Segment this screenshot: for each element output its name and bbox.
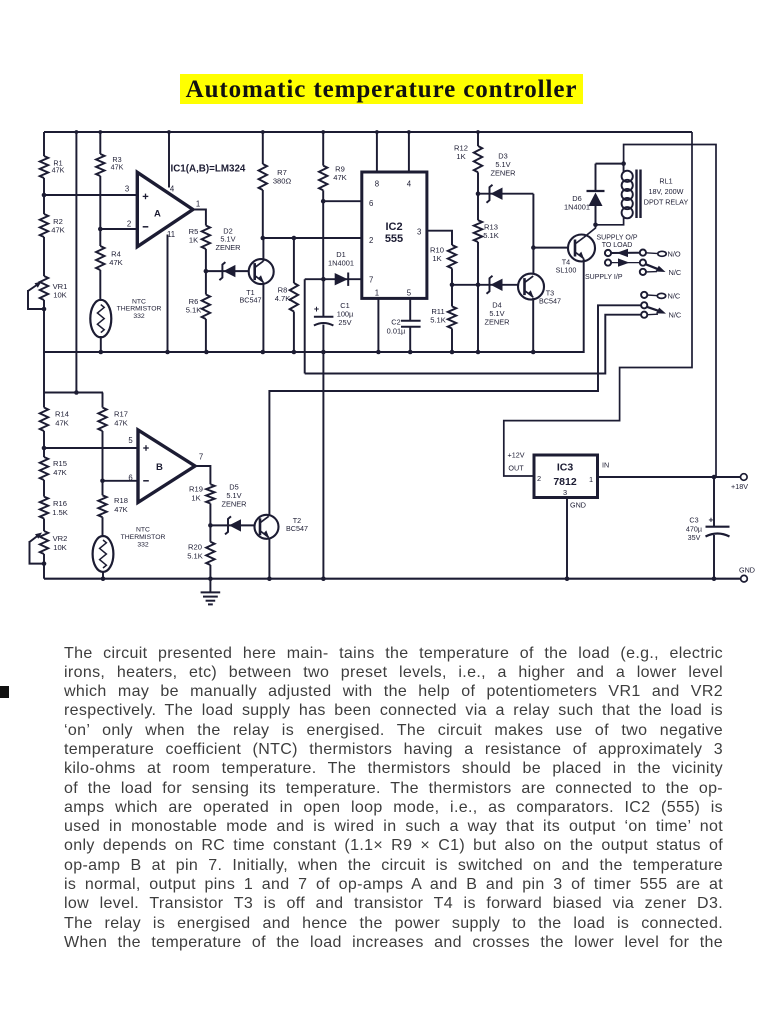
wire node to IC2 pin2 — [263, 237, 362, 239]
svg-text:R14: R14 — [55, 410, 69, 419]
edge artifact — [0, 686, 9, 698]
junction R10/R11/D4 node — [450, 283, 455, 288]
zener D3 — [487, 185, 503, 203]
wire node B to op-amp pin2 — [100, 228, 137, 230]
zener D4 — [487, 276, 503, 294]
pin 2 label — [127, 220, 131, 229]
wire R6 to mid bus — [205, 319, 207, 353]
svg-text:SUPPLY I/P: SUPPLY I/P — [585, 274, 623, 281]
pin 1 label — [196, 200, 200, 209]
terminal +18V — [741, 474, 748, 481]
resistor R6 — [202, 295, 210, 320]
IC2 pin 4 label — [407, 180, 412, 189]
wire N/C lower-bottom to D1 leg — [305, 315, 641, 374]
junction R13 rail at mid bus — [476, 350, 481, 355]
contact pole P2 circle — [605, 260, 611, 266]
svg-text:SL100: SL100 — [556, 266, 577, 275]
IC2 pin 3 label — [417, 228, 421, 237]
svg-text:+12V: +12V — [508, 451, 525, 460]
label IN — [602, 461, 609, 470]
svg-text:RL1: RL1 — [659, 177, 672, 186]
IC3 pin 3 label — [563, 488, 567, 497]
svg-text:1: 1 — [375, 289, 379, 298]
wire D6 top lead — [595, 207, 597, 225]
resistor R4 — [96, 246, 104, 270]
transistor T4 — [568, 235, 595, 262]
svg-text:IC3: IC3 — [557, 462, 574, 474]
label N/C lower-bottom — [669, 311, 682, 320]
diode D1 — [335, 273, 349, 286]
wire R3-R4 — [99, 176, 101, 246]
resistor R14 — [40, 408, 48, 432]
wire T4 emitter to mid bus — [533, 259, 584, 353]
svg-text:THERMISTOR: THERMISTOR — [117, 306, 162, 313]
wire T2 emitter to ground bus — [268, 538, 270, 579]
pin 11 label — [167, 230, 175, 239]
label R11 — [430, 307, 446, 325]
svg-text:ZENER: ZENER — [490, 169, 515, 178]
junction on top bus at IC2 pin4 — [407, 130, 411, 134]
resistor R18 — [98, 495, 106, 517]
wire R18 to thermistor B — [102, 517, 104, 537]
svg-text:IC1(A,B)=LM324: IC1(A,B)=LM324 — [171, 164, 246, 175]
label NTC thermistor A — [117, 299, 162, 320]
wire R20 to ground bus — [209, 565, 211, 579]
junction C1 rail at ground bus — [321, 576, 326, 581]
wire IC2 pin1 to mid bus — [377, 298, 379, 352]
svg-text:18V, 200W: 18V, 200W — [649, 187, 684, 196]
pin 7 label — [199, 453, 203, 462]
junction IC2 pin1 at mid bus — [376, 350, 381, 355]
junction R19/R20/D5 — [208, 523, 213, 528]
junction on top bus at R9 top — [321, 130, 325, 134]
contact pole lower circle — [641, 302, 647, 308]
label C3 — [686, 516, 702, 543]
wire C1 rail mid bus to ground bus — [322, 352, 324, 579]
op-amp U1B — [138, 430, 195, 502]
label D4 — [484, 301, 509, 327]
label R6 — [186, 297, 202, 315]
label IC1(A,B)=LM324 — [171, 164, 246, 175]
wire VR2 to ground bus — [43, 554, 45, 579]
svg-text:IN: IN — [602, 461, 609, 470]
svg-text:1K: 1K — [456, 152, 465, 161]
svg-text:35V: 35V — [688, 533, 701, 542]
junction C1 at mid bus — [321, 350, 326, 355]
wire node A to op-amp pin3 — [44, 194, 137, 196]
svg-text:2: 2 — [537, 474, 541, 483]
contact arrow right (supply) — [611, 258, 640, 266]
IC2 pin 8 label — [375, 180, 379, 189]
wire T3 emitter to mid bus — [532, 298, 534, 353]
svg-text:SUPPLY O/P: SUPPLY O/P — [597, 235, 638, 242]
svg-text:25V: 25V — [338, 318, 351, 327]
svg-text:ZENER: ZENER — [215, 243, 240, 252]
thermistor NTC B — [93, 536, 114, 572]
resistor R19 — [206, 484, 214, 503]
svg-text:R20: R20 — [188, 543, 202, 552]
ground symbol — [201, 579, 221, 605]
svg-text:47K: 47K — [53, 468, 67, 477]
junction R8 top — [292, 236, 297, 241]
label D1 — [328, 250, 354, 267]
wire R13 to D4 wire — [477, 242, 479, 285]
zener D2 — [219, 262, 235, 280]
wire pin6 node to IC2 pin6 — [323, 200, 362, 202]
contact pole P1 circle — [605, 250, 611, 256]
svg-text:THERMISTOR: THERMISTOR — [121, 534, 166, 541]
label R7 — [273, 168, 292, 186]
resistor R17 — [98, 408, 106, 432]
wire R8 to mid bus — [293, 312, 295, 353]
svg-text:5.1K: 5.1K — [483, 231, 499, 240]
label N/C lower-top — [668, 292, 681, 301]
label SUPPLY OP TO LOAD — [597, 235, 638, 249]
resistor R2 — [40, 214, 48, 237]
svg-text:1: 1 — [589, 475, 593, 484]
contact arrow left (supply) — [611, 249, 640, 257]
label R16 — [52, 499, 68, 517]
junction D6/coil bottom/T4 collector — [593, 223, 598, 228]
label RL1 — [644, 177, 689, 207]
wire coil bottom — [596, 217, 624, 225]
wire R14/R17 top bar — [44, 392, 103, 394]
svg-text:5.1K: 5.1K — [430, 316, 446, 325]
label R18 — [114, 496, 128, 514]
IC2 pin 6 label — [369, 199, 373, 208]
label R14 — [55, 410, 69, 428]
label R15 — [53, 459, 67, 477]
wire mid bus — [44, 351, 533, 353]
wire R16-VR2 — [43, 519, 45, 532]
wire R7 bottom to node — [262, 190, 264, 238]
junction C2 at mid bus — [408, 350, 413, 355]
svg-text:GND: GND — [570, 501, 586, 510]
resistor R12 — [474, 146, 482, 172]
contact circle N/C lower-top — [641, 292, 647, 298]
svg-text:47K: 47K — [109, 258, 123, 267]
svg-text:1K: 1K — [432, 254, 441, 263]
svg-text:R16: R16 — [53, 499, 67, 508]
pin 4 label — [170, 185, 175, 194]
potentiometer VR2 — [40, 531, 48, 554]
wire IC3 IN to +18V — [598, 476, 741, 478]
svg-text:R18: R18 — [114, 496, 128, 505]
thermistor NTC A — [90, 300, 111, 338]
svg-text:7812: 7812 — [553, 476, 577, 488]
junction R7/T1/pin2 wire — [261, 236, 266, 241]
resistor R11 — [448, 306, 456, 328]
resistor R9 — [319, 166, 327, 191]
svg-text:C3: C3 — [689, 516, 698, 525]
svg-text:1.5K: 1.5K — [52, 508, 68, 517]
label D2 — [215, 227, 240, 252]
svg-text:47K: 47K — [111, 163, 124, 172]
pin 5 label — [128, 436, 133, 445]
contact throw circle N/O row — [640, 250, 646, 256]
junction T3 emitter at mid bus — [531, 350, 536, 355]
wire left rail R1-R2 — [43, 178, 45, 214]
wire D5 node to T2 base — [210, 524, 254, 526]
resistor R16 — [40, 497, 48, 519]
svg-text:BC547: BC547 — [539, 296, 561, 305]
contact circle N/C lower-bottom — [641, 312, 658, 318]
IC2 pin 2 label — [369, 236, 373, 245]
resistor R3 — [96, 154, 104, 176]
wire D3 node right — [478, 193, 533, 195]
wire R14 to node — [43, 431, 45, 457]
label R13 — [483, 223, 499, 241]
junction VR2 wiper — [42, 561, 47, 566]
svg-text:0.01µ: 0.01µ — [387, 326, 406, 335]
wire R11 to mid bus — [451, 329, 453, 353]
svg-text:4: 4 — [170, 185, 175, 194]
junction on top bus at IC2 pin8 — [375, 130, 379, 134]
resistor R1 — [40, 156, 48, 178]
label GND pin3 — [570, 501, 586, 510]
svg-text:3: 3 — [125, 185, 129, 194]
svg-text:3: 3 — [417, 228, 421, 237]
junction coil top — [621, 161, 626, 166]
VR2 wiper arrow — [30, 533, 43, 543]
svg-text:N/C: N/C — [669, 311, 682, 320]
svg-text:47K: 47K — [55, 418, 69, 427]
wire ground bus — [44, 578, 741, 580]
junction on top bus at rail to R14/R17 — [75, 130, 79, 134]
junction VR1 wiper — [42, 307, 47, 312]
junction pin6 node B — [100, 479, 105, 484]
label VR1 — [53, 282, 68, 300]
label T1 — [240, 288, 262, 305]
wire D6 top to coil top — [596, 163, 624, 165]
diode D6 — [587, 164, 605, 225]
transistor T3 — [518, 274, 544, 300]
svg-text:3: 3 — [563, 488, 567, 497]
label D3 — [490, 152, 515, 178]
wire VR1 wiper to bottom terminal — [28, 290, 44, 309]
wire C3 top lead — [713, 477, 715, 527]
wire R12 top lead — [477, 132, 479, 146]
svg-text:1N4001: 1N4001 — [328, 258, 354, 267]
label +18V — [731, 482, 748, 491]
contact movable arm upper — [646, 264, 666, 272]
svg-text:332: 332 — [133, 313, 145, 320]
label R8 — [275, 286, 291, 304]
wire R17 to pin6 node — [102, 431, 104, 495]
label R10 — [430, 246, 444, 264]
label D6 — [564, 194, 590, 212]
label R1 — [52, 159, 65, 175]
junction pin7/C1 node — [321, 277, 326, 282]
label R9 — [333, 165, 347, 183]
wire C2 to mid bus — [409, 327, 411, 353]
svg-text:8: 8 — [375, 180, 379, 189]
junction node B (R3/R4) — [98, 227, 103, 232]
wire left rail VR1 to +12V mid bus — [43, 300, 45, 353]
junction R11 at mid bus — [450, 350, 455, 355]
wire left rail top — [43, 132, 45, 156]
IC2 pin 5 label — [407, 289, 412, 298]
svg-text:6: 6 — [128, 474, 132, 483]
contact throw circle B2 — [640, 260, 646, 266]
wire op-amp A output — [193, 210, 206, 226]
potentiometer VR1 — [40, 276, 48, 300]
label +12V OUT — [508, 451, 525, 473]
junction thermistor B at ground bus — [101, 576, 106, 581]
IC3 pin 1 label — [589, 475, 593, 484]
svg-text:1: 1 — [196, 200, 200, 209]
wire rail to lower op-amp resistors — [75, 132, 77, 393]
wire D5 node to R20 — [209, 525, 211, 541]
wire T4 collector — [584, 225, 596, 238]
svg-text:NTC: NTC — [132, 299, 146, 306]
wire pole lower to T2 collector — [269, 305, 641, 515]
svg-text:2: 2 — [127, 220, 131, 229]
label NTC thermistor B — [121, 527, 166, 549]
svg-text:BC547: BC547 — [286, 524, 308, 533]
capacitor C2 — [401, 321, 421, 327]
wire +12V top bus — [44, 131, 692, 133]
svg-text:47K: 47K — [51, 226, 65, 235]
label R20 — [187, 543, 203, 561]
wire D2 node to T1 base — [206, 270, 249, 272]
svg-text:A: A — [154, 209, 161, 220]
wire D1 left leg down — [304, 279, 306, 373]
wire C1 bottom to mid bus — [322, 325, 324, 353]
wire T4 base — [533, 247, 568, 249]
wire R9 node down to pin7 node — [322, 201, 324, 279]
svg-text:ZENER: ZENER — [484, 317, 509, 326]
contact N/O stub — [646, 251, 666, 256]
svg-text:OUT: OUT — [508, 464, 524, 473]
wire pin7 to D1 — [305, 278, 362, 280]
junction C3 top — [712, 475, 717, 480]
junction R6 at mid bus — [204, 350, 209, 355]
wire R12 to D3 node — [477, 172, 479, 193]
svg-text:VR2: VR2 — [53, 534, 68, 543]
wire D3 to T3 collector — [532, 194, 534, 275]
pin 6 label — [128, 474, 132, 483]
wire IC2 pin8 to bus — [376, 132, 378, 172]
resistor R5 — [202, 226, 210, 250]
capacitor C3 — [706, 515, 730, 537]
wire IC2 pin3 to R10 — [427, 231, 452, 245]
svg-text:1K: 1K — [189, 236, 198, 245]
label GND terminal — [739, 566, 755, 575]
svg-text:R15: R15 — [53, 459, 67, 468]
wire left rail R2-VR1 — [43, 237, 45, 276]
svg-text:470µ: 470µ — [686, 524, 702, 533]
svg-text:5.1K: 5.1K — [187, 551, 203, 560]
wire op-amp A pin4 to bus — [168, 132, 170, 188]
svg-text:TO LOAD: TO LOAD — [602, 242, 633, 249]
junction R20 at ground bus — [208, 576, 213, 581]
junction pin5 node — [42, 446, 47, 451]
wire D4 node to T3 base — [452, 284, 518, 286]
junction R5/R6/D2 — [204, 269, 209, 274]
label C1 — [337, 301, 354, 327]
svg-text:N/C: N/C — [669, 268, 682, 277]
resistor R8 — [290, 283, 298, 312]
junction T4 base tap — [531, 245, 536, 250]
wire IC2 pin4 to bus — [408, 132, 410, 172]
junction rail at R14/R17 bar — [74, 390, 79, 395]
svg-text:+18V: +18V — [731, 482, 748, 491]
svg-text:1K: 1K — [191, 493, 200, 502]
wire R19 to D5 node — [209, 504, 211, 526]
wire R7 top lead — [262, 132, 264, 164]
junction T1 emitter at mid bus — [261, 350, 266, 355]
label R2 — [51, 217, 65, 235]
junction pin6 node — [321, 199, 326, 204]
label T3 — [539, 289, 561, 306]
zener D5 — [225, 516, 241, 534]
svg-text:+: + — [314, 304, 319, 314]
svg-text:NTC: NTC — [136, 527, 150, 534]
svg-text:R17: R17 — [114, 410, 128, 419]
svg-text:10K: 10K — [53, 291, 67, 300]
svg-text:5: 5 — [128, 436, 133, 445]
op-amp U1A — [137, 172, 193, 246]
relay RL1 coil — [622, 164, 642, 219]
label T2 — [286, 516, 308, 533]
svg-text:47K: 47K — [114, 505, 128, 514]
label N/C upper — [669, 268, 682, 277]
junction pin11 at mid bus — [165, 350, 170, 355]
wire right rail to IC3 OUT — [504, 132, 692, 476]
label VR2 — [53, 534, 68, 552]
resistor R13 — [474, 220, 482, 242]
junction T2 emitter at ground bus — [267, 576, 272, 581]
VR1 wiper arrow — [28, 282, 42, 292]
label R17 — [114, 410, 128, 428]
junction thermistor A at mid bus — [99, 350, 104, 355]
label N/O — [668, 250, 681, 259]
IC2 pin 7 label — [369, 276, 373, 285]
wire D2 node to R6 — [205, 271, 207, 294]
wire T1 collector — [262, 238, 264, 261]
contact throw circle N/C upper — [640, 269, 657, 275]
svg-text:C2: C2 — [391, 318, 400, 327]
junction on top bus at R7 top — [261, 130, 265, 134]
svg-text:DPDT RELAY: DPDT RELAY — [644, 198, 689, 207]
svg-text:GND: GND — [739, 566, 755, 575]
svg-text:6: 6 — [369, 199, 373, 208]
svg-text:1N4001: 1N4001 — [564, 203, 590, 212]
svg-text:N/O: N/O — [668, 250, 681, 259]
resistor R10 — [448, 245, 456, 268]
svg-text:555: 555 — [385, 233, 403, 245]
junction R12/D3/R13 — [476, 191, 481, 196]
svg-text:ZENER: ZENER — [221, 499, 246, 508]
wire R17 top lead — [102, 393, 104, 408]
wire thermistor B to ground bus — [102, 571, 104, 579]
resistor R15 — [40, 457, 48, 480]
node A junction (R1/R2) — [42, 193, 47, 198]
junction on top bus at R12 top — [476, 130, 480, 134]
svg-text:5.1K: 5.1K — [186, 306, 202, 315]
svg-text:N/C: N/C — [668, 292, 681, 301]
label R3 — [111, 155, 124, 172]
label SUPPLY I/P — [585, 274, 623, 281]
label R19 — [189, 485, 203, 503]
wire left rail mid bus to bar — [43, 352, 45, 393]
label R12 — [454, 144, 468, 162]
svg-text:47K: 47K — [114, 418, 128, 427]
svg-text:4: 4 — [407, 180, 412, 189]
resistor R20 — [206, 542, 214, 565]
wire op-amp A pin11 to mid bus — [167, 235, 169, 353]
